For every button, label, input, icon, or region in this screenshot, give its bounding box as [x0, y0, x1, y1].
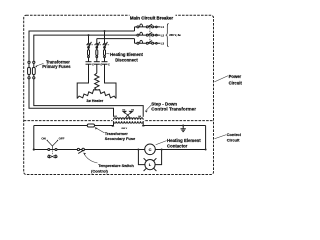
- svg-text:Control Transformer: Control Transformer: [151, 106, 196, 111]
- svg-text:Control: Control: [227, 132, 241, 137]
- svg-text:3ø Heater: 3ø Heater: [86, 99, 103, 103]
- svg-text:OFF: OFF: [59, 137, 65, 141]
- svg-text:230 V: 230 V: [121, 128, 127, 130]
- svg-text:L1: L1: [161, 25, 165, 29]
- svg-text:Disconnect: Disconnect: [115, 58, 138, 63]
- svg-text:ON: ON: [41, 137, 45, 141]
- svg-text:Temperature Switch: Temperature Switch: [98, 164, 134, 168]
- svg-text:Secondary Fuse: Secondary Fuse: [105, 136, 136, 141]
- svg-text:Main Circuit Breaker: Main Circuit Breaker: [130, 15, 173, 20]
- svg-text:Circuit: Circuit: [227, 138, 240, 143]
- svg-text:Circuit: Circuit: [229, 80, 243, 85]
- svg-text:(Control): (Control): [91, 169, 109, 174]
- svg-text:230 V, 3ø: 230 V, 3ø: [169, 33, 181, 37]
- svg-text:Heating Element: Heating Element: [110, 52, 143, 57]
- svg-text:L3: L3: [161, 42, 165, 46]
- svg-text:Contactor: Contactor: [167, 143, 188, 148]
- svg-text:L2: L2: [161, 33, 165, 37]
- svg-text:Power: Power: [229, 74, 242, 79]
- svg-text:C: C: [149, 147, 152, 152]
- svg-text:Primary Fuses: Primary Fuses: [42, 64, 71, 69]
